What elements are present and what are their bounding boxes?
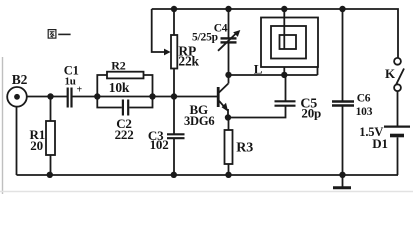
svg-text:102: 102 [150,137,169,152]
svg-text:D1: D1 [372,136,388,151]
svg-text:20: 20 [30,138,43,153]
svg-text:L: L [254,61,263,76]
svg-text:R2: R2 [111,58,125,72]
svg-text:222: 222 [115,127,134,142]
svg-text:3DG6: 3DG6 [184,114,214,128]
svg-text:R3: R3 [236,141,253,156]
svg-text:K: K [385,66,396,81]
svg-text:C6: C6 [357,93,371,105]
svg-text:20p: 20p [301,105,321,120]
svg-text:+: + [77,84,83,95]
svg-text:103: 103 [356,106,373,118]
svg-text:1u: 1u [65,75,76,87]
svg-text:5/25p: 5/25p [192,32,218,44]
svg-text:B2: B2 [12,72,28,87]
svg-text:10k: 10k [109,80,130,95]
svg-text:22k: 22k [178,54,199,69]
